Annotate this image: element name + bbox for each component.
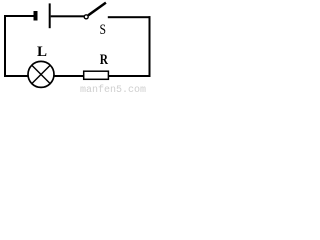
svg-text:S: S [100,20,107,37]
svg-text:L: L [37,44,47,60]
svg-text:manfen5.com: manfen5.com [80,84,146,94]
svg-text:R: R [100,50,109,67]
